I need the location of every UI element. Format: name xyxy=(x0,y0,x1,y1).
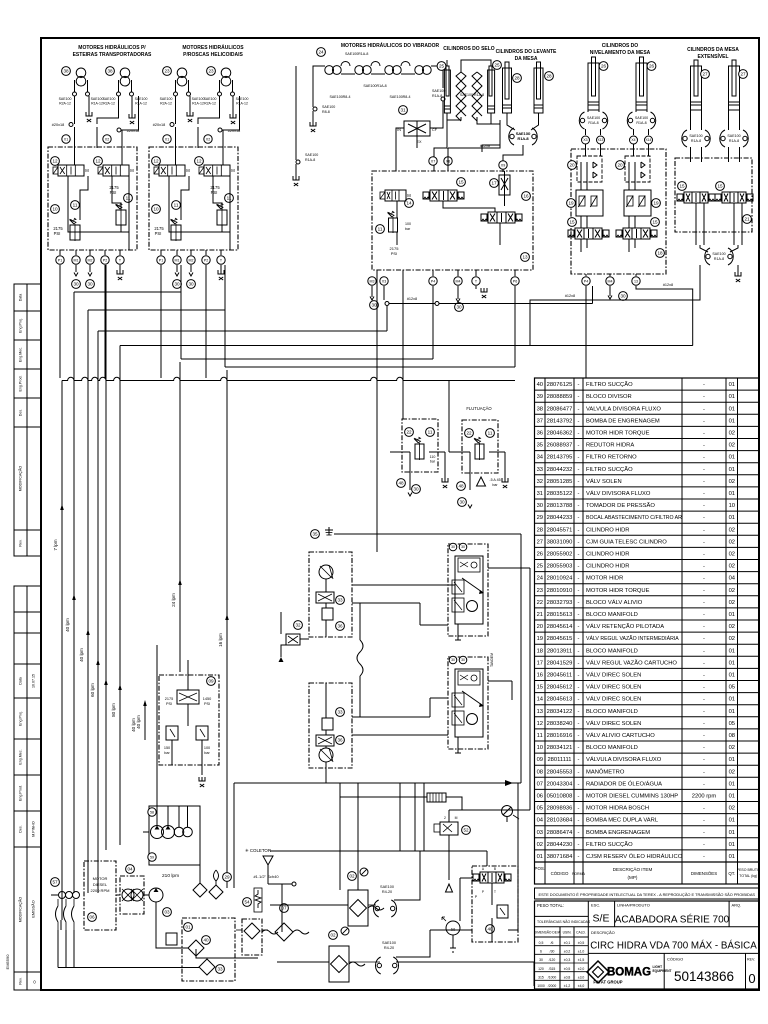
svg-text:12: 12 xyxy=(52,159,58,164)
svg-text:X7: X7 xyxy=(431,159,435,163)
balloons X3 X13 xyxy=(630,136,638,144)
svg-text:21: 21 xyxy=(537,612,543,618)
svg-text:-: - xyxy=(703,842,705,848)
balloon 30 M1 xyxy=(72,280,81,289)
svg-text:PESO BRUTO: PESO BRUTO xyxy=(737,868,760,872)
relief valve fl xyxy=(475,444,484,459)
nivelamento 13-port connector xyxy=(636,286,693,346)
balloon 48 xyxy=(397,479,406,488)
coupling 04 (dashed box) xyxy=(120,876,144,914)
svg-text:80 lpm: 80 lpm xyxy=(111,703,116,717)
balloon 26 xyxy=(647,62,656,71)
svg-text:28013911: 28013911 xyxy=(547,648,572,654)
svg-text:40 lpm: 40 lpm xyxy=(65,618,70,632)
svg-text:-: - xyxy=(703,757,705,763)
svg-text:VÁLV DIREC SOLEN: VÁLV DIREC SOLEN xyxy=(586,684,641,691)
svg-text:-: - xyxy=(578,527,580,533)
SAE clamp nivelamento xyxy=(579,112,584,129)
motor port lines xyxy=(175,80,177,92)
svg-text:28143795: 28143795 xyxy=(547,455,573,461)
svg-text:R2A-12: R2A-12 xyxy=(59,102,71,106)
svg-text:MOTORES HIDRÁULICOS DO VIBRADO: MOTORES HIDRÁULICOS DO VIBRADOR xyxy=(341,42,440,49)
inner manifold xyxy=(455,669,483,737)
svg-text:29: 29 xyxy=(224,875,230,880)
svg-text:-: - xyxy=(578,624,580,630)
balloon 10 xyxy=(51,205,60,214)
svg-text:-: - xyxy=(703,503,705,509)
svg-text:28: 28 xyxy=(546,74,552,79)
svg-text:23: 23 xyxy=(537,588,543,594)
description cell xyxy=(588,952,759,954)
levante cylinder left xyxy=(503,68,512,113)
arrows on vertical lines xyxy=(60,504,64,510)
balloon 38 xyxy=(106,67,115,76)
torque assembly dashed box xyxy=(448,657,488,749)
SAE100 R1A-8 drop left of vibrator xyxy=(295,66,297,160)
svg-text:-: - xyxy=(703,527,705,533)
svg-text:Eng.Prod.: Eng.Prod. xyxy=(19,376,23,392)
drop from divider to radiator line xyxy=(339,783,341,890)
svg-text:BLOCO VÁLV ALIVIO: BLOCO VÁLV ALIVIO xyxy=(586,599,643,606)
balloon X7 xyxy=(429,157,437,165)
nivelamento cylinder xyxy=(636,63,647,110)
svg-text:ESTEIRAS TRANSPORTADORAS: ESTEIRAS TRANSPORTADORAS xyxy=(73,52,152,58)
svg-text:25: 25 xyxy=(494,63,500,68)
balloon 11 xyxy=(426,428,435,437)
svg-text:-: - xyxy=(578,382,580,388)
svg-text:X2: X2 xyxy=(206,137,210,141)
svg-text:02: 02 xyxy=(537,842,543,848)
svg-text:03: 03 xyxy=(537,830,543,836)
svg-text:DIMENSÕES: DIMENSÕES xyxy=(691,871,717,876)
svg-text:MOTOR HIDR: MOTOR HIDR xyxy=(586,576,623,582)
directional valve 12 B xyxy=(204,165,230,176)
svg-text:BOMBA DE ENGRENAGEM: BOMBA DE ENGRENAGEM xyxy=(586,418,660,424)
svg-text:01: 01 xyxy=(729,491,735,497)
left bend verticals through bus xyxy=(73,292,75,893)
line from motor A to valve xyxy=(175,96,177,124)
svg-text:-: - xyxy=(703,733,705,739)
balloon 11 fl xyxy=(486,429,495,438)
svg-text:Rev.: Rev. xyxy=(19,539,23,546)
warn label xyxy=(477,477,486,486)
svg-text:CILINDROS DO: CILINDROS DO xyxy=(602,43,639,49)
svg-text:FLUTUAÇÃO: FLUTUAÇÃO xyxy=(466,406,492,411)
svg-text:02: 02 xyxy=(729,600,735,606)
svg-text:28044230: 28044230 xyxy=(547,842,573,848)
block wires lower xyxy=(325,683,327,718)
svg-text:-5 A 45: -5 A 45 xyxy=(489,478,500,482)
svg-text:20: 20 xyxy=(617,163,623,168)
filter diamond 40 xyxy=(188,940,204,956)
breather 29 xyxy=(209,885,223,899)
svg-text:-: - xyxy=(703,431,705,437)
svg-text:315: 315 xyxy=(538,975,544,979)
balloon 38 xyxy=(62,67,71,76)
balloon 30 M2 xyxy=(86,280,95,289)
hydraulic motor xyxy=(177,68,187,78)
drain below xyxy=(312,111,314,122)
ports under manifold 13 xyxy=(368,277,376,285)
svg-text:02: 02 xyxy=(729,479,735,485)
svg-text:15: 15 xyxy=(569,220,575,225)
svg-text:38: 38 xyxy=(63,69,69,74)
mid suction line xyxy=(334,533,521,535)
svg-text:10: 10 xyxy=(537,745,543,751)
svg-text:-: - xyxy=(703,394,705,400)
svg-text:28034122: 28034122 xyxy=(547,709,573,715)
main return bus xyxy=(234,782,521,784)
svg-text:2: 2 xyxy=(444,816,446,820)
balloon 15 ext B xyxy=(716,182,725,191)
relief valve A 2175 PSI xyxy=(70,225,80,240)
svg-text:30: 30 xyxy=(174,282,180,287)
svg-text:-: - xyxy=(578,491,580,497)
long return line y345.5 xyxy=(120,345,693,347)
svg-text:M1: M1 xyxy=(74,258,79,262)
svg-text:-: - xyxy=(578,673,580,679)
diagonal arrow xyxy=(462,691,482,705)
balloon 11 B xyxy=(225,194,234,203)
svg-text:ARQ.: ARQ. xyxy=(732,903,742,908)
block 09 wires xyxy=(187,675,189,690)
horizontal feed line y310 xyxy=(88,309,225,311)
selo accordion boot left xyxy=(456,72,466,121)
title block xyxy=(535,901,760,989)
svg-text:R1A-8: R1A-8 xyxy=(729,139,739,143)
manifold block 10 (dashed) xyxy=(48,147,137,250)
balloons above xyxy=(449,656,457,664)
balloon 59 xyxy=(148,853,156,861)
svg-text:CILINDRO HIDR: CILINDRO HIDR xyxy=(586,527,629,533)
svg-text:16: 16 xyxy=(523,194,529,199)
balloon 58 xyxy=(148,808,156,816)
valve in block 21 xyxy=(480,872,504,883)
motor circle lower xyxy=(319,748,333,762)
svg-text:bar: bar xyxy=(405,227,411,231)
svg-text:-: - xyxy=(703,600,705,606)
svg-text:CÓDIGO: CÓDIGO xyxy=(551,871,569,876)
svg-text:01: 01 xyxy=(729,709,735,715)
svg-text:28: 28 xyxy=(514,76,520,81)
svg-text:04: 04 xyxy=(729,576,736,582)
svg-text:22: 22 xyxy=(406,430,412,435)
svg-text:2200 rpm: 2200 rpm xyxy=(692,794,717,800)
svg-text:X2: X2 xyxy=(105,137,109,141)
svg-text:PSI: PSI xyxy=(204,702,210,706)
svg-text:MANÔMETRO: MANÔMETRO xyxy=(586,768,625,775)
top valve sub-box xyxy=(458,558,480,572)
svg-text:R4-20: R4-20 xyxy=(384,946,394,950)
left revision strip lower xyxy=(14,586,41,990)
svg-text:CILINDROS DA MESA: CILINDROS DA MESA xyxy=(687,47,739,53)
svg-text:6: 6 xyxy=(540,949,542,953)
svg-text:#12x8: #12x8 xyxy=(565,294,575,298)
svg-text:28055903: 28055903 xyxy=(547,564,573,570)
svg-text:FILTRO SUCÇÃO: FILTRO SUCÇÃO xyxy=(586,466,633,473)
svg-text:30: 30 xyxy=(459,500,465,505)
svg-text:-: - xyxy=(578,588,580,594)
svg-text:30: 30 xyxy=(456,305,462,310)
main bus line with crossover bumps xyxy=(62,377,515,380)
svg-text:12: 12 xyxy=(95,159,101,164)
torque assembly dashed box xyxy=(448,544,488,636)
svg-text:-: - xyxy=(578,648,580,654)
svg-text:R1A-12: R1A-12 xyxy=(135,102,147,106)
svg-text:TOMADOR DE PRESSÃO: TOMADOR DE PRESSÃO xyxy=(586,502,655,509)
svg-text:01: 01 xyxy=(729,382,735,388)
svg-text:38031090: 38031090 xyxy=(547,539,573,545)
svg-text:57: 57 xyxy=(52,880,58,885)
directional valve ext A xyxy=(684,192,708,203)
directional valve 15 xyxy=(430,190,457,201)
balloon X9 xyxy=(499,161,507,169)
balloon 30 under M3 xyxy=(370,301,379,310)
hydraulic motor xyxy=(76,68,86,78)
top valve sub-box xyxy=(458,671,480,685)
balloon 25 left xyxy=(437,62,446,71)
svg-text:SAE100: SAE100 xyxy=(135,97,148,101)
svg-text:FILTRO RETORNO: FILTRO RETORNO xyxy=(586,455,637,461)
svg-text:ACABADORA SÉRIE 700: ACABADORA SÉRIE 700 xyxy=(615,913,730,926)
directional valve 14 xyxy=(385,190,406,201)
svg-text:33: 33 xyxy=(537,467,543,473)
extensivel cylinder xyxy=(691,66,702,110)
svg-text:10: 10 xyxy=(52,207,58,212)
svg-text:-: - xyxy=(703,418,705,424)
svg-text:VÁLV DIREC SOLEN: VÁLV DIREC SOLEN xyxy=(586,696,641,703)
svg-text:#20x18: #20x18 xyxy=(153,123,165,127)
svg-text:±0,5: ±0,5 xyxy=(564,967,571,971)
balloons above xyxy=(449,543,457,551)
svg-text:28011111: 28011111 xyxy=(547,757,571,763)
svg-text:01: 01 xyxy=(729,455,735,461)
port balloons P1 M1 M2 P2 T xyxy=(157,256,165,264)
balloons X3 X13 xyxy=(582,136,590,144)
svg-text:-: - xyxy=(578,818,580,824)
balloon 12 valve B xyxy=(94,157,103,166)
svg-text:-: - xyxy=(578,842,580,848)
tolerance mini table xyxy=(535,936,589,938)
svg-text:-: - xyxy=(578,576,580,582)
svg-text:-: - xyxy=(703,576,705,582)
balloon 27 xyxy=(739,70,748,79)
flow divider symbol xyxy=(316,592,334,603)
svg-text:-: - xyxy=(578,745,580,751)
filter diamond 33 xyxy=(199,959,215,975)
svg-text:01: 01 xyxy=(729,515,735,521)
tank symbol below T xyxy=(117,270,123,274)
svg-text:SAE100R1A-8: SAE100R1A-8 xyxy=(363,84,386,88)
svg-text:54: 54 xyxy=(244,900,250,905)
balloon 33 xyxy=(216,965,225,974)
svg-text:1450: 1450 xyxy=(203,697,211,701)
svg-text:40 lpm: 40 lpm xyxy=(136,715,141,729)
tank below xyxy=(442,478,448,482)
balloon X2 xyxy=(103,135,111,143)
balloon 26 xyxy=(599,62,608,71)
svg-text:01: 01 xyxy=(729,697,735,703)
svg-text:SAE100: SAE100 xyxy=(236,97,249,101)
internal drops xyxy=(628,182,630,190)
svg-text:-: - xyxy=(703,854,705,860)
svg-text:P4: P4 xyxy=(584,279,588,283)
svg-text:48: 48 xyxy=(398,481,404,486)
svg-text:M4: M4 xyxy=(456,279,461,283)
svg-text:M: M xyxy=(85,168,89,173)
svg-text:2200 RPM: 2200 RPM xyxy=(91,888,110,893)
svg-text:X4: X4 xyxy=(631,138,635,142)
svg-text:02: 02 xyxy=(729,745,735,751)
levante feed line xyxy=(503,145,523,161)
balloon 30 M2 xyxy=(187,280,196,289)
pump out lines xyxy=(156,806,158,825)
svg-text:BLOCO DIVISOR: BLOCO DIVISOR xyxy=(586,394,632,400)
svg-text:08: 08 xyxy=(729,733,735,739)
svg-text:SAE100: SAE100 xyxy=(91,97,104,101)
svg-text:01: 01 xyxy=(729,794,735,800)
svg-text:MODIFICAÇÃO: MODIFICAÇÃO xyxy=(18,897,23,923)
svg-text:-: - xyxy=(703,745,705,751)
svg-text:38: 38 xyxy=(537,406,543,412)
svg-text:01: 01 xyxy=(729,467,735,473)
manifold 13 internal wires xyxy=(396,201,398,218)
svg-text:REDUTOR HIDRA: REDUTOR HIDRA xyxy=(586,443,634,449)
svg-text:Data: Data xyxy=(19,294,23,302)
solenoid valve 32 left xyxy=(294,621,303,630)
svg-text:50143866: 50143866 xyxy=(674,969,734,984)
balloon 40 xyxy=(202,936,211,945)
balloon 22 xyxy=(405,428,414,437)
internal drops xyxy=(580,182,582,190)
balloon 24 xyxy=(317,48,326,57)
svg-text:-: - xyxy=(578,733,580,739)
svg-text:-: - xyxy=(703,382,705,388)
long return line y345 xyxy=(120,345,693,347)
svg-text:27: 27 xyxy=(537,539,543,545)
svg-text:21: 21 xyxy=(744,217,750,222)
svg-text:32: 32 xyxy=(295,623,301,628)
svg-text:33: 33 xyxy=(217,967,223,972)
svg-text:02: 02 xyxy=(729,552,735,558)
balloon 28 right xyxy=(545,72,554,81)
parts list table xyxy=(535,378,760,884)
svg-text:PSI: PSI xyxy=(166,702,172,706)
EX drain line xyxy=(416,136,418,148)
svg-text:28041529: 28041529 xyxy=(547,660,573,666)
svg-text:-: - xyxy=(703,624,705,630)
svg-text:VÁLV RETENÇÃO PILOTADA: VÁLV RETENÇÃO PILOTADA xyxy=(586,623,664,630)
levante cylinder right xyxy=(534,68,543,113)
balloon 15 xyxy=(457,178,466,187)
svg-text:28086477: 28086477 xyxy=(547,406,573,412)
svg-text:01: 01 xyxy=(185,925,191,930)
svg-text:FILTRO SUCÇÃO: FILTRO SUCÇÃO xyxy=(586,381,633,388)
balloon 11 A xyxy=(172,201,181,210)
svg-text:PSI: PSI xyxy=(54,231,61,236)
svg-text:02: 02 xyxy=(349,874,355,879)
svg-text:CJSM RESERV ÓLEO HIDRÁULICO: CJSM RESERV ÓLEO HIDRÁULICO xyxy=(586,853,683,860)
lines above tank xyxy=(270,850,487,852)
svg-text:±0,5: ±0,5 xyxy=(578,941,585,945)
svg-text:SAE100: SAE100 xyxy=(382,941,396,945)
wires between divider blocks and torque assemblies xyxy=(352,584,455,586)
svg-text:R4-20: R4-20 xyxy=(382,890,392,894)
svg-text:SAE100: SAE100 xyxy=(305,153,318,157)
vibrator motor xyxy=(325,66,334,75)
relief valve B 2175 PSI xyxy=(116,210,126,225)
selo left cylinder xyxy=(444,70,450,113)
svg-text:MOTOR DIESEL CUMMINS 130HP: MOTOR DIESEL CUMMINS 130HP xyxy=(586,794,678,800)
pump 03 xyxy=(149,888,163,902)
svg-text:USIN.: USIN. xyxy=(563,931,572,935)
svg-text:30: 30 xyxy=(73,282,79,287)
balloon 10 xyxy=(152,205,161,214)
svg-text:30: 30 xyxy=(537,503,543,509)
relief valve B 2175 PSI xyxy=(217,210,227,225)
svg-text:VÁLV DIREC SOLEN: VÁLV DIREC SOLEN xyxy=(586,720,641,727)
svg-text:12: 12 xyxy=(537,721,543,727)
wavy hose to cooler xyxy=(262,930,309,934)
balloon 23 xyxy=(207,67,216,76)
svg-text:-: - xyxy=(578,455,580,461)
svg-text:R1A-12: R1A-12 xyxy=(192,102,204,106)
svg-text:31: 31 xyxy=(537,491,543,497)
svg-text:04: 04 xyxy=(127,867,133,872)
svg-text:15: 15 xyxy=(717,184,723,189)
svg-text:-: - xyxy=(703,709,705,715)
lines right of filters xyxy=(368,904,376,906)
svg-text:bar: bar xyxy=(492,483,498,487)
svg-text:-: - xyxy=(578,721,580,727)
svg-text:SAE100: SAE100 xyxy=(103,97,116,101)
motor port lines xyxy=(74,80,76,92)
svg-text:-: - xyxy=(703,636,705,642)
crossover line motor B right port xyxy=(223,96,240,165)
selo connection lines xyxy=(447,113,461,120)
bypass zigzag above filter 54 xyxy=(255,890,261,908)
balloon 31 xyxy=(399,106,408,115)
svg-text:15: 15 xyxy=(679,184,685,189)
line filter54 to tank xyxy=(262,929,268,931)
svg-text:22: 22 xyxy=(466,431,472,436)
svg-text:24: 24 xyxy=(318,50,324,55)
valve 52 wires xyxy=(448,835,450,880)
svg-text:-: - xyxy=(703,830,705,836)
extensivel cylinder xyxy=(729,66,740,110)
svg-text:CF: CF xyxy=(432,128,438,132)
balloon 06 xyxy=(88,913,97,922)
svg-text:Eng.Mec.: Eng.Mec. xyxy=(19,347,23,362)
svg-text:24: 24 xyxy=(537,576,544,582)
long vertical distribution lines xyxy=(105,265,107,850)
svg-text:31: 31 xyxy=(400,108,406,113)
svg-text:-: - xyxy=(578,697,580,703)
wires block 21 xyxy=(460,877,472,879)
svg-text:-: - xyxy=(578,600,580,606)
svg-text:38: 38 xyxy=(107,69,113,74)
cooler diamond 07 xyxy=(275,923,293,941)
pump riser to circuits xyxy=(156,645,158,806)
svg-text:20: 20 xyxy=(569,163,575,168)
svg-text:R1A-12: R1A-12 xyxy=(91,102,103,106)
svg-text:14: 14 xyxy=(537,697,544,703)
svg-text:/2000: /2000 xyxy=(548,984,557,988)
needle-check valve 17 xyxy=(499,175,510,195)
svg-text:05: 05 xyxy=(729,721,735,727)
riser to nivelamento P4 xyxy=(592,286,594,304)
svg-text:CILINDRO HIDR: CILINDRO HIDR xyxy=(586,552,629,558)
